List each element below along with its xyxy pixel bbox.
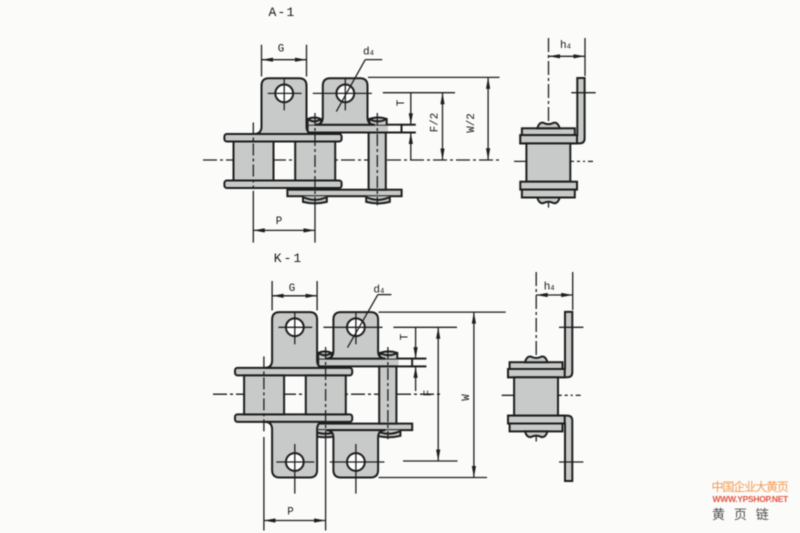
- side lower narrow plate: [522, 190, 575, 198]
- side lower narrow plate K-1: [510, 424, 563, 432]
- pin 2 extension line for P: [314, 204, 316, 243]
- svg-text:W: W: [461, 394, 473, 401]
- side pin head top K-1: [525, 356, 548, 362]
- side lower wide plate K-1: [508, 416, 565, 424]
- pin 3 top rivet head K-1: [380, 351, 397, 358]
- dimension d4 label and leader (K-1): [378, 294, 392, 296]
- svg-text:F/2: F/2: [430, 113, 442, 132]
- attachment tab 2 (A-1): [315, 78, 375, 125]
- pin 1 extension line for P K-1: [263, 437, 265, 531]
- dimension G (A-1): [261, 45, 263, 77]
- side pin vertical centerline: [548, 38, 550, 208]
- dimension T (K-1): [415, 327, 417, 358]
- pin 2 top rivet head: [308, 118, 321, 125]
- pin 3 top rivet head: [369, 118, 386, 125]
- side upper wide plate K-1: [508, 369, 565, 377]
- dimension G (K-1): [271, 281, 273, 310]
- svg-text:d4: d4: [363, 46, 374, 58]
- side pin head bottom: [537, 198, 560, 204]
- pin 2 centerline K-1: [325, 347, 327, 438]
- pin 2 bottom rivet head: [303, 196, 327, 203]
- side view horizontal centerline K-1: [502, 394, 573, 396]
- dimension P (A-1): [253, 229, 315, 231]
- svg-text:K-1: K-1: [274, 251, 303, 266]
- side view horizontal centerline: [514, 160, 585, 162]
- inner link bottom plate: [224, 181, 341, 189]
- dimension P (K-1): [264, 520, 326, 522]
- inner link bottom plate K-1: [235, 414, 352, 422]
- dimension d4 label and leader (A-1): [365, 59, 382, 61]
- inner link top plate K-1: [235, 368, 352, 376]
- pin 3 centerline: [376, 113, 378, 205]
- lower hole centerline through L-plate K-1: [559, 461, 583, 463]
- side roller K-1: [514, 377, 558, 415]
- svg-text:h4: h4: [544, 282, 555, 294]
- hole 1 crosshair: [268, 92, 302, 94]
- side pin head top: [537, 123, 560, 129]
- extension line tab bottoms (K-1): [379, 477, 488, 479]
- roller 2 K-1: [306, 375, 346, 414]
- dimension W (K-1): [473, 312, 475, 477]
- svg-text:T: T: [396, 99, 408, 106]
- svg-text:G: G: [289, 283, 295, 295]
- bent attachment L-plate (A-1 side): [520, 78, 584, 143]
- horizontal centerline A-1: [203, 159, 500, 161]
- upper bent attachment L-plate (K-1 side): [508, 312, 572, 377]
- side roller: [526, 143, 570, 181]
- dimension F (K-1): [437, 327, 439, 461]
- extension line hole center (A-1): [383, 92, 455, 94]
- roller 1: [234, 142, 274, 181]
- svg-text:P: P: [287, 507, 293, 519]
- dimension F/2 (A-1): [442, 93, 444, 160]
- pin 2 bottom rivet head K-1: [314, 430, 338, 437]
- attachment tab 1 bottom (K-1): [265, 422, 325, 478]
- attachment tab 2 bottom (K-1): [326, 430, 386, 477]
- lower bent attachment L-plate (K-1 side): [508, 416, 572, 481]
- svg-text:T: T: [400, 333, 412, 340]
- pin 3 bottom rivet head: [366, 196, 390, 203]
- pin 3 body K-1: [379, 366, 396, 423]
- side upper wide plate: [520, 135, 577, 143]
- pin 3 bottom rivet head K-1: [377, 430, 401, 437]
- extension line tab tops (A-1): [368, 76, 500, 78]
- pin 1 extension line for P: [252, 191, 254, 243]
- watermark: company yellow pages: [712, 478, 788, 495]
- pin 3 centerline K-1: [387, 347, 389, 439]
- attachment tab 1 (A-1): [254, 78, 314, 134]
- extension line bottom hole center (K-1): [403, 460, 458, 462]
- roller 2: [295, 142, 335, 181]
- roller 1 K-1: [244, 375, 284, 414]
- outer link bottom plate K-1: [298, 424, 412, 431]
- svg-text:d4: d4: [373, 284, 384, 296]
- pin 1 centerline K-1: [263, 356, 265, 432]
- svg-text:A-1: A-1: [268, 5, 295, 20]
- side lower wide plate: [520, 182, 577, 190]
- pin 2 extension line for P K-1: [325, 438, 327, 531]
- outer link top plate K-1: [318, 359, 412, 367]
- svg-text:h4: h4: [560, 40, 571, 52]
- horizontal centerline K-1: [213, 393, 440, 395]
- svg-text:G: G: [278, 44, 284, 56]
- dimension T (A-1): [410, 93, 412, 125]
- svg-text:F: F: [423, 390, 435, 396]
- svg-text:P: P: [276, 216, 282, 228]
- hole 2 crosshair: [313, 92, 372, 94]
- dimension W/2 (A-1): [487, 77, 489, 159]
- side upper narrow plate K-1: [510, 362, 563, 369]
- pin 2 top rivet head K-1: [318, 351, 331, 358]
- pin 3 body: [369, 133, 386, 190]
- pin 2 centerline: [314, 113, 316, 204]
- side pin head bottom K-1: [525, 431, 548, 437]
- side pin vertical centerline K-1: [535, 272, 537, 442]
- outer link bottom plate: [287, 190, 401, 197]
- side upper narrow plate: [522, 128, 575, 135]
- attachment tab 1 top (K-1): [265, 312, 325, 368]
- inner link top plate: [224, 134, 341, 142]
- attachment hole centerline through L-plate: [571, 92, 595, 94]
- outer link top plate (bent attachment leg edge): [308, 125, 402, 133]
- extension line hole center (K-1): [393, 326, 457, 328]
- upper hole centerline through L-plate K-1: [559, 326, 583, 328]
- pin 1 centerline: [252, 123, 254, 189]
- dimension h4 (K-1): [572, 272, 574, 310]
- attachment tab 2 top (K-1): [326, 312, 386, 359]
- dimension h4 (A-1): [584, 38, 586, 76]
- extension line tab tops (K-1): [379, 311, 506, 313]
- svg-text:W/2: W/2: [466, 113, 478, 132]
